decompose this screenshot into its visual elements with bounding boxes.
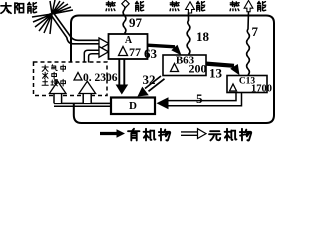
svg-text:13: 13 <box>209 66 223 81</box>
svg-text:63: 63 <box>144 46 158 61</box>
svg-text:0. 2306: 0. 2306 <box>83 72 118 84</box>
svg-text:77: 77 <box>129 45 141 59</box>
svg-text:D: D <box>129 100 137 112</box>
svg-text:18: 18 <box>196 29 210 44</box>
svg-text:200: 200 <box>189 62 207 76</box>
svg-text:32: 32 <box>143 72 156 87</box>
svg-text:1700: 1700 <box>251 84 272 95</box>
svg-text:97: 97 <box>129 15 143 30</box>
svg-text:5: 5 <box>196 91 203 106</box>
svg-text:7: 7 <box>252 24 259 39</box>
